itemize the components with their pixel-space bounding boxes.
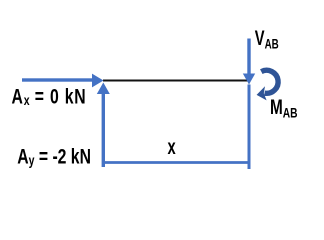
- label Ax = 0 kN: [12, 84, 87, 108]
- svg-text:x: x: [168, 135, 176, 158]
- force arrow Ax (horizontal, pointing right into node A): [22, 74, 104, 88]
- label x (dimension): [168, 135, 176, 158]
- moment arc MAB (clockwise curved arrow at node B): [257, 70, 279, 100]
- dimension extension line at B (vertical below beam): [248, 85, 251, 170]
- label Ay = -2 kN: [17, 144, 91, 168]
- force arrow Ay (vertical, pointing up into node A): [97, 83, 110, 168]
- label VAB: [255, 26, 279, 52]
- label MAB: [270, 95, 298, 121]
- dimension line x (horizontal): [103, 161, 249, 164]
- shear force arrow VAB (vertical, pointing down onto node B): [243, 39, 255, 85]
- svg-text:VAB: VAB: [255, 26, 279, 52]
- svg-text:Ay = -2 kN: Ay = -2 kN: [17, 144, 91, 168]
- svg-text:MAB: MAB: [270, 95, 298, 121]
- beam AB (cut section line): [103, 80, 248, 82]
- svg-text:Ax = 0 kN: Ax = 0 kN: [12, 84, 87, 108]
